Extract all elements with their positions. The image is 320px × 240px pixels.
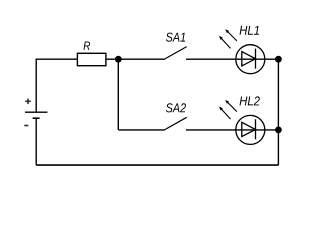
HL2 light arrow right shaft [227,101,237,111]
HL1 light arrow right shaft [227,31,237,41]
HL2 light arrow right head [225,100,229,104]
HL1 light arrow left head [219,36,223,40]
battery plus sign [25,99,31,105]
node A junction dot [115,56,122,63]
wire: node A down to second branch [117,59,119,130]
HL2 light arrow left shaft [220,108,230,119]
wire: battery positive up and right to resistor [36,59,77,112]
HL2 light arrow left head [219,107,223,111]
label HL2 [240,96,260,105]
battery negative short plate [33,117,40,119]
HL1 light arrow left shaft [220,37,230,48]
wire: node A branch to SA2 left contact [118,129,165,131]
LED HL2 [236,115,265,144]
LED HL1 [236,45,265,74]
HL1 light arrow right head [225,29,229,33]
wire: bottom return rail [36,164,278,166]
wire: battery negative down to bottom return [35,118,37,165]
wire: right rail node B down to bottom return [277,59,279,165]
switch SA2 lever [165,117,187,129]
label SA2 [166,103,186,112]
node B junction dot [275,56,282,63]
wire: SA2 right contact through HL2 to node C [186,129,278,131]
switch SA1 lever [165,47,187,59]
value label R [84,42,91,50]
wire: resistor to SA1 left contact [106,58,165,60]
battery minus sign [24,125,28,127]
node C junction dot [275,126,282,133]
wire: SA1 right contact through HL1 to node B [186,58,278,60]
label SA1 [166,33,185,42]
battery positive long plate [25,111,47,113]
label HL1 [240,26,259,35]
resistor R [77,53,106,65]
